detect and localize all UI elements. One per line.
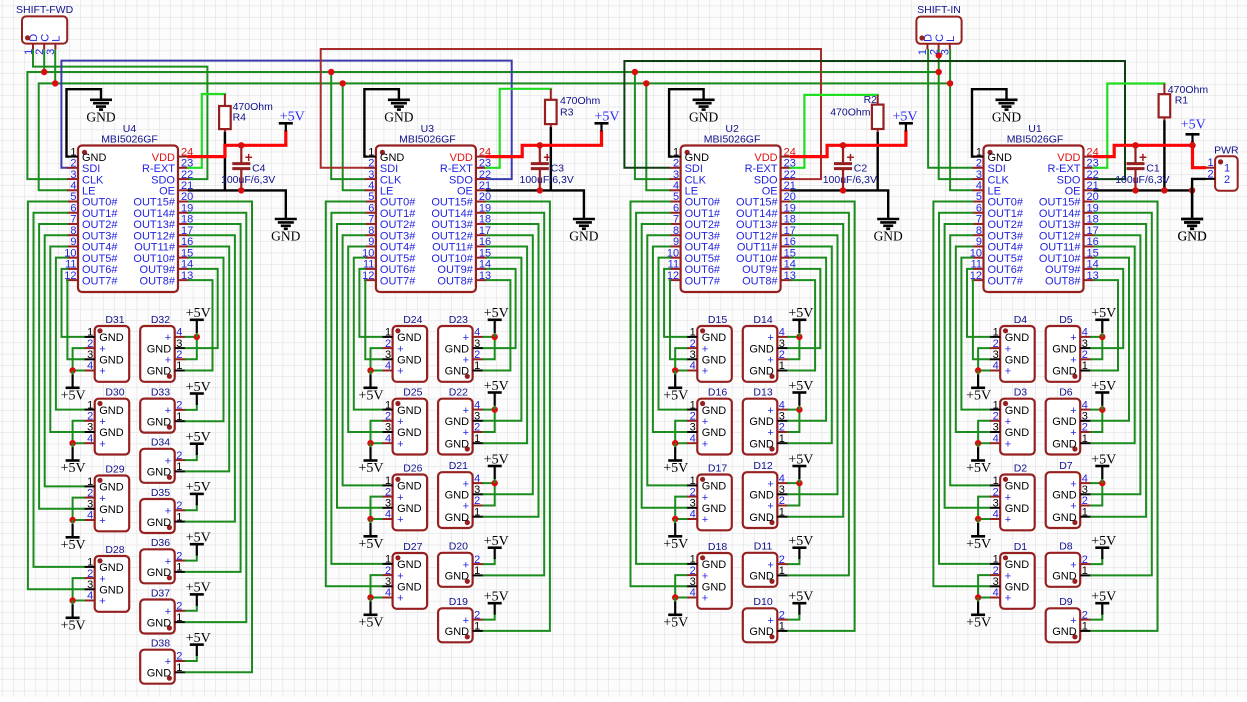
+5V power symbol (D29) [61, 520, 86, 553]
LED module D19 (2-pin) [438, 596, 473, 642]
svg-text:+: + [397, 416, 403, 428]
D38 pin 2 (+) [165, 651, 186, 669]
wire D8 pin2 to +5V [1091, 559, 1102, 565]
svg-text:4: 4 [976, 180, 982, 192]
svg-text:OUT1#: OUT1# [685, 208, 721, 220]
svg-text:1: 1 [779, 506, 785, 518]
U4 pin 17 (OUT12#) [133, 225, 193, 243]
svg-text:R4: R4 [233, 112, 247, 124]
U2 pin 1 (GND) [670, 146, 710, 164]
svg-text:2: 2 [474, 554, 480, 566]
U2 pin 12 (OUT7#) [667, 270, 721, 288]
svg-text:D6: D6 [1059, 387, 1073, 399]
junction SHIFT-IN C rail end [936, 69, 942, 75]
ground (PWR) [1177, 219, 1206, 244]
wire D6 + pins to +5V [1091, 410, 1102, 432]
op-amp-style IC U1 MBI5026GF [984, 123, 1084, 292]
svg-text:OUT4#: OUT4# [82, 242, 118, 254]
junction D31 +5V [69, 367, 75, 373]
svg-text:3: 3 [385, 422, 391, 434]
U4 pin 9 (OUT4#) [67, 236, 118, 254]
svg-text:3: 3 [474, 484, 480, 496]
wire U2.OUT10# to D13 pin3 [788, 258, 826, 421]
wire net L latch rail (SHIFT-FWD pin3 / SHIFT-IN pin3 / U4.LE) [39, 83, 950, 190]
svg-text:OUT2#: OUT2# [988, 219, 1024, 231]
svg-text:2: 2 [993, 565, 999, 577]
junction D7 +5V [1099, 480, 1105, 486]
LED module D37 (2-pin) [140, 587, 175, 633]
U4 pin 4 (LE) [67, 180, 95, 198]
svg-text:2: 2 [474, 609, 480, 621]
svg-text:OE: OE [457, 185, 473, 197]
U4 pin 15 (OUT10#) [133, 247, 193, 265]
svg-text:GND: GND [874, 229, 903, 244]
U3 pin 2 (SDI) [365, 158, 398, 176]
svg-text:+5V: +5V [61, 388, 86, 403]
svg-text:+5V: +5V [358, 461, 383, 476]
svg-text:GND: GND [445, 343, 470, 355]
D1 pin 2 (+) [989, 565, 1011, 583]
LED module D31 (4-pin) [95, 314, 130, 382]
svg-text:+5V: +5V [186, 581, 211, 596]
svg-text:1: 1 [1082, 621, 1088, 633]
U1 pin 1 (GND) [973, 146, 1013, 164]
D14 pin 2 (+) [767, 349, 788, 367]
svg-text:D16: D16 [708, 387, 727, 399]
svg-text:1: 1 [779, 565, 785, 577]
D18 pin 1 (GND) [686, 554, 726, 572]
D3 pin 3 (GND) [989, 422, 1029, 440]
svg-text:2: 2 [993, 486, 999, 498]
svg-text:OUT3#: OUT3# [380, 230, 416, 242]
ground (mid, U1.OE) [1177, 219, 1206, 244]
svg-text:2: 2 [474, 422, 480, 434]
wire U4.OUT1# to D28 pin1 [34, 213, 84, 567]
svg-text:4: 4 [1082, 327, 1088, 339]
svg-text:OUT13#: OUT13# [1039, 219, 1081, 231]
svg-text:GND: GND [749, 416, 774, 428]
svg-text:1: 1 [779, 621, 785, 633]
D27 pin 2 (+) [382, 565, 404, 583]
wire D37 pin2 to +5V [186, 605, 197, 611]
svg-text:D7: D7 [1059, 460, 1073, 472]
+5V power symbol (D24) [358, 371, 383, 404]
LED module D21 (4-pin) [438, 460, 473, 528]
svg-text:3: 3 [673, 169, 679, 181]
svg-text:2: 2 [779, 349, 785, 361]
wire U1.OUT12# to D7 pin3 [1091, 235, 1140, 494]
svg-text:SDI: SDI [988, 163, 1006, 175]
ground (top, U2.GND) [689, 100, 718, 125]
svg-text:OUT7#: OUT7# [380, 275, 416, 287]
U3 pin 22 (SDO) [449, 169, 491, 187]
svg-text:+5V: +5V [663, 461, 688, 476]
svg-text:+5V: +5V [61, 618, 86, 633]
U4 pin 10 (OUT5#) [64, 247, 118, 265]
+5V power symbol (D9) [1091, 590, 1116, 615]
svg-text:+: + [99, 438, 105, 450]
svg-text:3: 3 [45, 49, 57, 55]
svg-text:GND: GND [1052, 571, 1077, 583]
svg-text:D12: D12 [753, 460, 772, 472]
svg-text:GND: GND [749, 490, 774, 502]
D6 pin 1 (GND) [1052, 433, 1091, 451]
svg-text:4: 4 [673, 180, 679, 192]
svg-text:+5V: +5V [61, 538, 86, 553]
svg-text:+5V: +5V [484, 306, 509, 321]
LED module D25 (4-pin) [393, 387, 428, 455]
D24 pin 2 (+) [382, 338, 404, 356]
D35 pin 1 (GND) [147, 511, 186, 529]
svg-text:+: + [99, 596, 105, 608]
wire U3.GND to ground [364, 89, 399, 156]
wire U3.OUT5# to D25 pin1 [354, 258, 382, 410]
wire U4.OUT13# to D36 pin1 [186, 224, 241, 572]
wire U3.R-EXT to R top [486, 89, 551, 168]
svg-text:OUT0#: OUT0# [685, 197, 721, 209]
wire U4.OUT14# to D37 pin1 [186, 213, 247, 622]
svg-text:2: 2 [1082, 554, 1088, 566]
D36 pin 2 (+) [165, 550, 186, 568]
svg-text:GND: GND [445, 490, 470, 502]
svg-text:OUT3#: OUT3# [685, 230, 721, 242]
U4 pin 5 (OUT0#) [67, 191, 118, 209]
D24 pin 4 (+) [382, 360, 404, 378]
wire U3.OUT4# to D25 pin3 [348, 246, 381, 432]
wire U3.OUT2# to D26 pin3 [337, 224, 382, 508]
wire D30 + pins to +5V [73, 421, 84, 443]
svg-text:1: 1 [474, 506, 480, 518]
svg-text:+5V: +5V [186, 430, 211, 445]
svg-text:8: 8 [368, 225, 374, 237]
svg-text:+5V: +5V [788, 590, 813, 605]
D9 pin 2 (+) [1070, 609, 1091, 627]
junction D21 +5V [492, 480, 498, 486]
D29 pin 1 (GND) [84, 476, 124, 494]
U1 pin 6 (OUT1#) [973, 202, 1024, 220]
junction D26 +5V [367, 516, 373, 522]
U2 pin 8 (OUT3#) [670, 225, 721, 243]
U1 pin 24 (VDD) [1057, 146, 1098, 164]
svg-text:+5V: +5V [663, 388, 688, 403]
wire D24 + pins to +5V [371, 348, 382, 370]
svg-text:8: 8 [673, 225, 679, 237]
wire D33 pin2 to +5V [186, 404, 197, 410]
D21 pin 3 (GND) [445, 484, 484, 502]
U1 pin 16 (OUT11#) [1040, 236, 1099, 254]
+5V power symbol (D27) [358, 598, 383, 631]
+5V power symbol (D6) [1091, 379, 1116, 410]
resistor R1 470Ohm [1159, 84, 1209, 121]
+5V power symbol (D26) [358, 519, 383, 552]
D15 pin 1 (GND) [686, 327, 726, 345]
U4 pin 8 (OUT3#) [67, 225, 118, 243]
D9 pin 1 (GND) [1052, 621, 1091, 639]
svg-text:GND: GND [86, 109, 115, 124]
svg-text:+: + [1005, 438, 1011, 450]
D10 pin 1 (GND) [749, 621, 788, 639]
svg-text:4: 4 [690, 360, 696, 372]
wire U2.OE / R / C ground net [792, 190, 889, 218]
svg-text:GND: GND [1005, 481, 1029, 493]
wire D28 + pins to +5V [73, 578, 84, 600]
D12 pin 3 (GND) [749, 484, 788, 502]
svg-text:3: 3 [993, 498, 999, 510]
svg-text:+5V: +5V [788, 452, 813, 467]
D23 pin 3 (GND) [445, 338, 484, 356]
U1 pin 3 (CLK) [973, 169, 1010, 187]
U2 pin 19 (OUT14#) [736, 202, 796, 220]
svg-text:1: 1 [690, 475, 696, 487]
svg-text:1: 1 [176, 461, 182, 473]
svg-text:OUT8#: OUT8# [140, 275, 176, 287]
+5V power symbol (channel U1) [1181, 117, 1206, 145]
junction D24 +5V [367, 367, 373, 373]
U3 pin 16 (OUT11#) [432, 236, 491, 254]
U2 pin 23 (R-EXT) [745, 158, 796, 176]
capacitor C1 100uF/6,3V [1115, 145, 1169, 190]
D15 pin 3 (GND) [686, 349, 726, 367]
svg-text:6: 6 [673, 202, 679, 214]
LED module D2 (4-pin) [1000, 462, 1034, 530]
wire U2.OUT0# to D18 pin3 [631, 202, 687, 587]
wire U1.OUT15# to D9 pin1 [1091, 202, 1157, 631]
svg-text:OUT6#: OUT6# [988, 264, 1024, 276]
svg-text:+: + [767, 332, 773, 344]
LED module D1 (4-pin) [1000, 541, 1034, 609]
svg-text:C1: C1 [1146, 163, 1160, 175]
+5V power symbol (D25) [358, 443, 383, 476]
D22 pin 2 (+) [463, 422, 484, 440]
wire U3.VDD +5V net [487, 145, 602, 156]
svg-text:2: 2 [976, 158, 982, 170]
svg-text:GND: GND [271, 229, 300, 244]
D5 pin 3 (GND) [1052, 338, 1091, 356]
svg-text:D4: D4 [1014, 314, 1028, 326]
svg-text:D22: D22 [449, 387, 468, 399]
op-amp-style IC U3 MBI5026GF [376, 123, 476, 292]
+5V power symbol (D21) [484, 452, 509, 483]
D30 pin 3 (GND) [84, 422, 124, 440]
U1 pin 13 (OUT8#) [1045, 270, 1099, 288]
svg-text:1: 1 [176, 360, 182, 372]
U4 pin 6 (OUT1#) [67, 202, 118, 220]
D18 pin 2 (+) [686, 565, 708, 583]
wire D23 + pins to +5V [484, 337, 495, 359]
svg-text:+5V: +5V [484, 534, 509, 549]
junction D6 +5V [1099, 406, 1105, 412]
svg-text:4: 4 [368, 180, 374, 192]
svg-text:OUT14#: OUT14# [431, 208, 473, 220]
svg-text:OUT14#: OUT14# [736, 208, 778, 220]
D13 pin 2 (+) [767, 422, 788, 440]
capacitor C4 100uF/6,3V [221, 145, 275, 190]
svg-text:+: + [463, 478, 469, 490]
svg-text:GND: GND [1052, 416, 1077, 428]
svg-text:D33: D33 [151, 386, 170, 398]
svg-text:+5V: +5V [788, 306, 813, 321]
D32 pin 4 (+) [165, 327, 186, 345]
svg-text:2: 2 [690, 338, 696, 350]
D31 pin 2 (+) [84, 338, 106, 356]
svg-text:OUT10#: OUT10# [736, 253, 778, 265]
wire D4 + pins to +5V [978, 348, 989, 370]
+5V power symbol (D5) [1091, 306, 1116, 337]
LED module D28 (4-pin) [95, 544, 130, 612]
junction SHIFT-FWD C rail [41, 69, 47, 75]
U4 pin 22 (SDO) [151, 169, 193, 187]
svg-text:+: + [463, 501, 469, 513]
wire U1.OUT10# to D6 pin3 [1091, 258, 1129, 421]
U3 pin 9 (OUT4#) [365, 236, 416, 254]
svg-text:D27: D27 [403, 541, 422, 553]
LED module D35 (2-pin) [140, 487, 175, 533]
wire U1.SDO to U2.SDI (dark green) [624, 61, 1125, 179]
wire U1.GND to ground [972, 89, 1007, 156]
svg-text:+: + [1070, 559, 1076, 571]
wire U1.R-EXT to R top [1094, 84, 1165, 168]
U2 pin 5 (OUT0#) [670, 191, 721, 209]
wire U3.OUT3# to D26 pin1 [343, 235, 382, 485]
svg-text:D32: D32 [151, 314, 170, 326]
svg-text:D24: D24 [403, 314, 422, 326]
svg-text:1: 1 [87, 327, 93, 339]
wire R bottom to OE/ground net [877, 132, 879, 190]
svg-text:OUT15#: OUT15# [1039, 197, 1081, 209]
svg-text:+5V: +5V [594, 110, 619, 125]
junction SHIFT-IN L rail end [947, 80, 953, 86]
junction D12 +5V [796, 480, 802, 486]
svg-text:GND: GND [1005, 582, 1029, 594]
svg-text:D21: D21 [449, 460, 468, 472]
U3 pin 21 (OE) [457, 180, 491, 198]
LED module D12 (4-pin) [743, 460, 778, 528]
svg-text:3: 3 [690, 422, 696, 434]
D22 pin 4 (+) [463, 399, 484, 417]
U2 pin 11 (OUT6#) [668, 259, 721, 277]
wire D10 pin2 to +5V [788, 614, 799, 620]
wire U1.OUT13# to D7 pin1 [1091, 224, 1146, 517]
svg-text:OUT4#: OUT4# [988, 242, 1024, 254]
wire U4.OUT0# to D28 pin3 [28, 202, 84, 590]
D32 pin 1 (GND) [147, 360, 186, 378]
wire U3.OUT12# to D21 pin3 [484, 235, 533, 494]
svg-text:GND: GND [99, 355, 124, 367]
svg-text:3: 3 [690, 576, 696, 588]
U3 pin 20 (OUT15#) [431, 191, 491, 209]
svg-text:D35: D35 [151, 487, 170, 499]
+5V power symbol (D15) [663, 371, 688, 404]
svg-text:D23: D23 [449, 314, 468, 326]
svg-text:2: 2 [1082, 495, 1088, 507]
svg-text:OUT13#: OUT13# [431, 219, 473, 231]
svg-text:2: 2 [779, 609, 785, 621]
svg-text:D10: D10 [753, 596, 772, 608]
svg-text:SDI: SDI [685, 163, 703, 175]
svg-text:GND: GND [1005, 503, 1029, 515]
D28 pin 2 (+) [84, 568, 106, 586]
svg-text:D18: D18 [708, 541, 727, 553]
LED module D10 (2-pin) [743, 596, 778, 642]
svg-text:4: 4 [779, 399, 785, 411]
svg-text:2: 2 [928, 49, 940, 55]
wire U2.OUT3# to D17 pin1 [647, 235, 686, 485]
U2 pin 3 (CLK) [670, 169, 707, 187]
svg-text:+: + [702, 366, 708, 378]
wire U2.OUT1# to D18 pin1 [636, 213, 686, 564]
wire U2.OUT11# to D13 pin1 [788, 246, 832, 443]
junction D28 +5V [69, 597, 75, 603]
svg-text:GND: GND [445, 626, 470, 638]
svg-text:LE: LE [685, 185, 698, 197]
svg-text:2: 2 [474, 349, 480, 361]
U2 pin 21 (OE) [762, 180, 796, 198]
U1 pin 12 (OUT7#) [970, 270, 1024, 288]
svg-text:1: 1 [385, 399, 391, 411]
svg-text:+5V: +5V [1091, 306, 1116, 321]
svg-text:1: 1 [368, 146, 374, 158]
svg-text:+: + [702, 514, 708, 526]
svg-text:+: + [1005, 514, 1011, 526]
resistor R4 470Ohm [219, 94, 273, 133]
svg-text:22: 22 [1087, 169, 1099, 181]
svg-text:GND: GND [1052, 626, 1077, 638]
svg-text:1: 1 [70, 146, 76, 158]
svg-text:1: 1 [779, 433, 785, 445]
LED module D4 (4-pin) [1000, 314, 1034, 382]
svg-text:2: 2 [385, 411, 391, 423]
svg-text:1: 1 [976, 146, 982, 158]
D28 pin 3 (GND) [84, 579, 124, 597]
U4 pin 1 (GND) [67, 146, 107, 164]
svg-text:4: 4 [993, 433, 999, 445]
svg-text:GND: GND [1177, 229, 1206, 244]
svg-text:6: 6 [368, 202, 374, 214]
svg-text:OUT9#: OUT9# [140, 264, 176, 276]
+5V power symbol (D22) [484, 379, 509, 410]
wire D26 + pins to +5V [371, 497, 382, 519]
svg-text:D2: D2 [1014, 462, 1028, 474]
junction D17 +5V [672, 516, 678, 522]
junction D30 +5V [69, 440, 75, 446]
svg-text:1: 1 [176, 562, 182, 574]
svg-text:4: 4 [690, 587, 696, 599]
svg-text:3: 3 [87, 349, 93, 361]
svg-text:1: 1 [779, 360, 785, 372]
svg-text:+: + [99, 416, 105, 428]
svg-text:L: L [945, 36, 957, 42]
svg-text:R3: R3 [560, 107, 574, 119]
svg-text:OUT0#: OUT0# [380, 197, 416, 209]
U1 pin 11 (OUT6#) [971, 259, 1024, 277]
+5V power symbol (D28) [61, 601, 86, 634]
D17 pin 2 (+) [686, 486, 708, 504]
svg-text:GND: GND [569, 229, 598, 244]
connector PWR pin1 marker dot [1218, 159, 1223, 164]
svg-text:1: 1 [87, 399, 93, 411]
svg-text:1: 1 [385, 554, 391, 566]
junction D4 +5V [975, 367, 981, 373]
D3 pin 4 (+) [989, 433, 1011, 451]
svg-text:3: 3 [690, 349, 696, 361]
capacitor C2 100uF/6,3V [823, 145, 877, 190]
wire U1.OUT9# to D5 pin3 [1091, 269, 1123, 348]
svg-text:9: 9 [70, 236, 76, 248]
svg-text:3: 3 [474, 338, 480, 350]
D25 pin 4 (+) [382, 433, 404, 451]
svg-text:GND: GND [397, 481, 422, 493]
op-amp-style IC U2 MBI5026GF [681, 123, 781, 292]
